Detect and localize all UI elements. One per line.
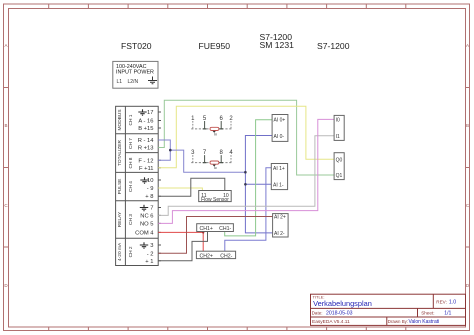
label FUE950 (199, 41, 231, 51)
wire AI1+ to CH2- (blue) (225, 168, 272, 251)
ground (pin 7) (140, 205, 148, 211)
pin label 3 (150, 243, 153, 249)
svg-text:Q1: Q1 (336, 173, 343, 179)
digital output Q0/Q1 (334, 153, 344, 180)
svg-text:NO 5: NO 5 (140, 222, 154, 228)
svg-text:AI 1-: AI 1- (273, 182, 284, 188)
wire NC6 to I1 (light gray) (158, 136, 334, 216)
svg-text:F +11: F +11 (139, 166, 154, 172)
svg-text:CH 4: CH 4 (128, 181, 134, 192)
section label MODBUS (117, 109, 123, 130)
svg-text:I1: I1 (336, 134, 340, 140)
channel label CH 2 (128, 246, 134, 257)
svg-text:4-20 mA: 4-20 mA (117, 242, 123, 261)
svg-text:NC 6: NC 6 (140, 214, 153, 220)
pin label 10 (147, 178, 153, 184)
svg-text:CH 3: CH 3 (128, 214, 134, 225)
svg-text:A - 16: A - 16 (138, 119, 153, 125)
jumper Ic (row 2) (210, 161, 219, 170)
ground (pin 3) (140, 242, 148, 248)
FUE950 terminal row pins 1 5 6 2 (191, 116, 233, 129)
svg-text:TOTALIZER: TOTALIZER (117, 139, 123, 165)
svg-text:CH1-: CH1- (219, 226, 231, 232)
svg-text:CH 2: CH 2 (128, 246, 134, 257)
pin label 7 (150, 206, 153, 212)
svg-text:7: 7 (150, 206, 153, 212)
svg-text:AI 2-: AI 2- (274, 231, 285, 237)
svg-text:CH 7: CH 7 (128, 138, 134, 149)
junction (violet joins blue at AI net) (244, 171, 247, 174)
pin label F +11 (139, 166, 154, 172)
wire net R+13 to Q1 (green) (158, 100, 334, 175)
svg-text:FUE950: FUE950 (199, 41, 231, 51)
connector CH1 (197, 224, 234, 232)
wire NO5 to I0 (pink) (158, 119, 334, 223)
section label RELAY (117, 211, 123, 227)
channel label CH 4 (128, 181, 134, 192)
svg-text:REV:: REV: (436, 299, 447, 304)
pin label - 2 (147, 252, 154, 258)
svg-text:1.0: 1.0 (449, 300, 456, 306)
power input module 100-240VAC (113, 61, 158, 88)
svg-text:Flow Sensor: Flow Sensor (201, 197, 229, 203)
svg-text:F - 12: F - 12 (138, 158, 153, 164)
pin label B +15 (138, 126, 153, 132)
section label TOTALIZER (117, 139, 123, 165)
junction (R-14/F-12 node) (169, 149, 172, 152)
pin label A - 16 (138, 119, 153, 125)
channel label CH 7 (128, 138, 134, 149)
jumper In (row 1) (210, 127, 219, 136)
svg-text:AI 0+: AI 0+ (274, 118, 286, 124)
title block (311, 294, 466, 325)
channel label CH 3 (128, 214, 134, 225)
analog input AI 1 (271, 164, 287, 190)
pin label - 9 (147, 186, 154, 192)
pin label R +13 (138, 146, 154, 152)
analog input AI 0 (272, 115, 288, 142)
svg-text:CH 8: CH 8 (128, 157, 134, 168)
svg-text:B +15: B +15 (138, 126, 153, 132)
pin label COM 4 (135, 231, 154, 237)
wire net F+11 to Q0 (yellow) (158, 106, 334, 168)
pin label NO 5 (140, 222, 154, 228)
flow sensor (199, 191, 232, 204)
svg-text:Q0: Q0 (336, 157, 343, 163)
svg-text:EasyEDA V5.4.11: EasyEDA V5.4.11 (312, 319, 350, 325)
wire -2 to AI2+ (brown) (158, 217, 272, 254)
module pin stubs (158, 112, 161, 261)
svg-text:R - 14: R - 14 (138, 138, 155, 144)
svg-text:I0: I0 (336, 118, 340, 124)
svg-text:1/1: 1/1 (444, 310, 451, 316)
svg-text:SM 1231: SM 1231 (260, 40, 295, 50)
svg-text:2018-05-03: 2018-05-03 (326, 310, 353, 316)
svg-text:Drawn By:: Drawn By: (388, 319, 408, 324)
svg-text:FST020: FST020 (121, 41, 152, 51)
channel label CH 1 (128, 114, 134, 125)
svg-text:Ic: Ic (214, 166, 217, 170)
wire -9 to flow sensor 11 (yellow) (158, 188, 202, 191)
svg-text:B: B (4, 123, 7, 128)
svg-text:+ 1: + 1 (145, 259, 153, 265)
label S7-1200 (317, 41, 350, 51)
pin label 17 (147, 110, 153, 116)
svg-text:CH1+: CH1+ (200, 226, 213, 232)
channel label CH 8 (128, 157, 134, 168)
junction (COM4 red node) (202, 231, 204, 233)
svg-text:B: B (466, 123, 469, 128)
pin label + 1 (145, 259, 153, 265)
module FST020 terminal block (116, 106, 159, 265)
svg-text:COM 4: COM 4 (135, 231, 154, 237)
svg-text:- 2: - 2 (147, 252, 154, 258)
svg-text:PULSE: PULSE (117, 179, 123, 195)
wire net AI0-/AI1-/AI2- (blue) (245, 136, 272, 233)
svg-text:In: In (214, 132, 217, 136)
svg-text:R +13: R +13 (138, 146, 154, 152)
svg-text:A: A (4, 43, 7, 48)
section label PULSE (117, 179, 123, 195)
svg-text:10: 10 (147, 178, 153, 184)
wire +8 to flow sensor 10 (dark gray) (158, 178, 225, 196)
wire COM4 to CH1+/CH2+ (red) (158, 232, 203, 252)
svg-text:AI 2+: AI 2+ (274, 215, 286, 221)
ground (pin 10) (140, 177, 148, 183)
section label 4-20 mA (117, 242, 123, 261)
analog input AI 2 (273, 214, 289, 237)
pin label R - 14 (138, 138, 155, 144)
svg-text:RELAY: RELAY (117, 211, 123, 227)
label S7-1200 SM 1231 (260, 32, 295, 50)
svg-text:Valon Kastrati: Valon Kastrati (409, 319, 440, 325)
svg-text:Verkabelungsplan: Verkabelungsplan (313, 299, 372, 308)
svg-text:L2/N: L2/N (128, 79, 139, 85)
svg-text:L1: L1 (117, 79, 123, 85)
wire +1 to CH1+ (dark gray) (158, 232, 207, 261)
svg-text:17: 17 (147, 110, 153, 116)
svg-text:Date:: Date: (312, 310, 323, 315)
svg-text:CH2-: CH2- (220, 253, 232, 259)
label FST020 (121, 41, 152, 51)
svg-text:CH 1: CH 1 (128, 114, 134, 125)
connector CH2 (196, 251, 235, 259)
ground (power input earth symbol) (148, 77, 157, 84)
svg-text:- 9: - 9 (147, 186, 154, 192)
pin label + 8 (145, 194, 153, 200)
FUE950 terminal row pins 3 7 8 4 (191, 150, 233, 163)
wire CH1- to AI0+ (green) (225, 120, 272, 236)
svg-text:INPUT POWER: INPUT POWER (116, 70, 154, 76)
svg-text:Sheet:: Sheet: (421, 310, 434, 315)
svg-text:3: 3 (150, 243, 153, 249)
ground (pin 17) (138, 109, 146, 115)
svg-text:+ 8: + 8 (145, 194, 153, 200)
svg-text:S7-1200: S7-1200 (317, 41, 350, 51)
digital input I0/I1 (334, 115, 344, 140)
svg-text:A: A (466, 43, 469, 48)
pin label F - 12 (138, 158, 153, 164)
svg-text:MODBUS: MODBUS (117, 109, 123, 130)
svg-text:AI 0-: AI 0- (274, 134, 285, 140)
junction (AI 1- branch) (244, 183, 247, 186)
wire net R-14 / F-12 (violet) (158, 140, 245, 172)
svg-text:CH2+: CH2+ (200, 253, 213, 259)
pin label NC 6 (140, 214, 153, 220)
svg-text:AI 1+: AI 1+ (273, 166, 285, 172)
